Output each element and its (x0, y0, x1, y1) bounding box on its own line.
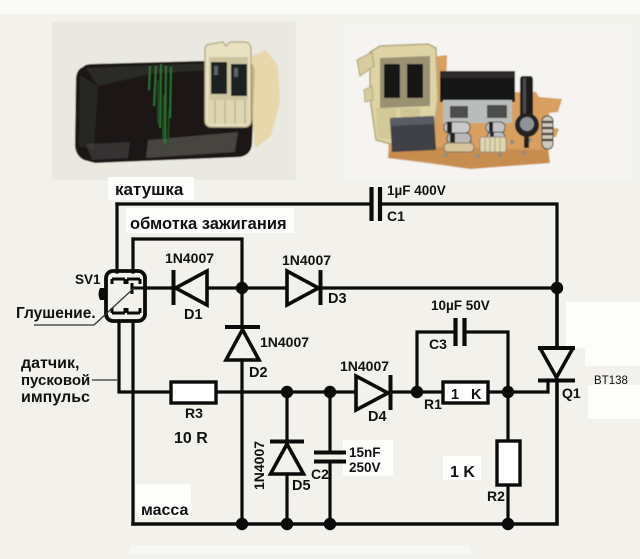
black capacitor block (440, 71, 515, 102)
wire: R3 to D4 (216, 390, 356, 393)
svg-text:датчик,: датчик, (21, 355, 79, 372)
svg-text:1N4007: 1N4007 (282, 252, 331, 268)
svg-text:катушка: катушка (115, 180, 184, 199)
wire: C2 branch (328, 392, 331, 524)
svg-text:1: 1 (451, 387, 459, 403)
svg-text:1 K: 1 K (450, 464, 475, 481)
wire: left vertical to SV1 pin1 (115, 204, 118, 272)
white label patches (108, 177, 194, 200)
svg-text:Глушение.: Глушение. (16, 305, 96, 322)
svg-text:R3: R3 (185, 405, 203, 421)
svg-text:D3: D3 (328, 291, 347, 307)
resistor R2 (497, 441, 520, 485)
capacitor C1 (372, 187, 381, 221)
svg-text:SV1: SV1 (75, 272, 101, 287)
wire: C3 loop (417, 332, 508, 392)
svg-text:BT138: BT138 (594, 375, 628, 387)
connector terminals (211, 62, 227, 94)
diode D2 (vertical, cathode top) (225, 327, 260, 360)
wire: D4 to R1 (391, 390, 443, 393)
connector lower ribs (208, 100, 249, 124)
svg-text:Q1: Q1 (562, 385, 581, 401)
connector latch tab (357, 52, 374, 76)
wire: R1 to gate node (488, 390, 508, 393)
svg-text:масса: масса (141, 502, 189, 519)
svg-text:1N4007: 1N4007 (251, 441, 267, 490)
SV1 pin 1 (top left) (112, 279, 125, 284)
wire: katushka top line (117, 202, 368, 205)
round component with metallic center (515, 113, 539, 137)
photo background (52, 22, 296, 180)
svg-text:R1: R1 (424, 396, 442, 412)
svg-text:C3: C3 (429, 336, 447, 352)
resistor R3 (171, 382, 216, 403)
standing black electrolytic (520, 76, 533, 122)
svg-text:D4: D4 (368, 409, 387, 425)
svg-text:C1: C1 (387, 208, 405, 224)
wire: obmotka vertical to SV1 pin2 (131, 239, 134, 272)
diode D5 (vertical, cathode top) (270, 442, 304, 475)
svg-text:10 R: 10 R (174, 430, 208, 447)
connector SV1 body (106, 271, 145, 321)
wire: D3 to right node (322, 286, 557, 289)
tan piece at right (252, 50, 280, 148)
diode D3 (cathode right) (287, 270, 321, 305)
leader line from датчик text (92, 379, 117, 381)
massa junction at C2 (324, 518, 336, 530)
wire: gate node to triac gate (508, 380, 548, 392)
connector terminals (384, 64, 400, 98)
junction node on trigger line at C2 (324, 386, 336, 398)
capacitor C3 (456, 318, 465, 346)
svg-text:C2: C2 (311, 466, 329, 482)
SV1 pin 3 (bottom left) (112, 308, 125, 313)
svg-text:обмотка зажигания: обмотка зажигания (130, 215, 287, 233)
SV1 pin 2 (top right) (127, 279, 140, 284)
diode D1 (cathode left) (174, 270, 208, 305)
connector opening (380, 56, 430, 108)
svg-text:пусковой: пусковой (21, 372, 90, 389)
junction node D4/C3/R1 (411, 386, 423, 398)
svg-text:250V: 250V (349, 460, 381, 475)
svg-text:1N4007: 1N4007 (340, 358, 389, 374)
leader line from Глушение (34, 324, 94, 326)
connector (cream) (205, 42, 251, 127)
capacitor C2 (314, 453, 346, 462)
cylinder diodes (444, 122, 505, 152)
green wire streaks (149, 64, 171, 143)
svg-text:D5: D5 (292, 478, 311, 494)
switch arm (thin diagonal) (94, 288, 134, 325)
wire: C1 right to corner and down (382, 204, 557, 287)
wire: obmotka line (133, 239, 242, 288)
massa junction at D2 (236, 518, 248, 530)
svg-text:15nF: 15nF (349, 445, 381, 460)
SV1 pin 4 (bottom right) (127, 308, 140, 313)
CDI black box body (75, 61, 255, 163)
svg-text:1N4007: 1N4007 (165, 250, 214, 266)
svg-text:1µF 400V: 1µF 400V (387, 183, 446, 198)
wire: SV1 left pin down and to R3 (119, 321, 171, 392)
SV1 kill contact (99, 288, 107, 300)
striped resistor (542, 116, 553, 149)
junction node R1/C3/R2/gate (502, 386, 514, 398)
junction node B (C1/D3/triac) (551, 282, 563, 294)
svg-text:R2: R2 (487, 488, 505, 504)
PCB board (388, 55, 562, 169)
dark transformer block under connector (390, 116, 436, 152)
box bottom grey reflection (146, 132, 238, 158)
svg-text:D1: D1 (184, 307, 203, 323)
svg-text:импульс: импульс (21, 389, 90, 406)
wire: SV1 right pin down to massa corner (131, 321, 134, 524)
triac Q1 (538, 348, 575, 381)
wire: D2 bottom to massa (240, 360, 243, 524)
massa junction at D5 (281, 518, 293, 530)
SV1 pin 5 (right, to D1) (132, 283, 145, 294)
svg-text:D2: D2 (249, 365, 268, 381)
svg-text:1N4007: 1N4007 (260, 334, 309, 350)
junction node A (D1/D3/D2/obmotka) (236, 282, 248, 294)
svg-text:10µF 50V: 10µF 50V (431, 298, 490, 313)
wire: R2 branch (506, 392, 509, 524)
silver section below cap (443, 100, 512, 123)
resistor R1 (443, 382, 488, 403)
massa junction at R2 (502, 518, 514, 530)
wire: main horizontal SV1 to D1 (145, 286, 172, 289)
diode D4 (cathode right) (356, 375, 391, 410)
wire: D1 to junction (208, 286, 285, 289)
connector shell (cream) (370, 44, 438, 146)
wire: D2 branch down (240, 288, 243, 326)
box top face highlight (86, 62, 251, 86)
solder joints (444, 138, 532, 158)
svg-text:K: K (471, 387, 482, 403)
wire: D5 branch (285, 392, 288, 524)
junction node on trigger line at D5 (281, 386, 293, 398)
yellow film cap (480, 137, 506, 152)
wire: triac vertical and massa bottom line (133, 288, 557, 524)
photo background (345, 24, 631, 180)
connector lower prongs (376, 108, 396, 140)
